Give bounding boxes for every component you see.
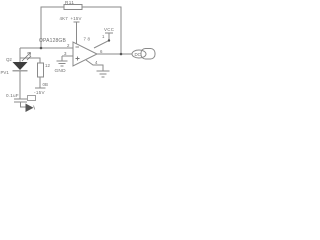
svg-text:VCC: VCC — [104, 27, 114, 32]
svg-text:-15V: -15V — [34, 90, 46, 95]
svg-text:Q2: Q2 — [6, 57, 12, 62]
svg-text:DC: DC — [135, 52, 141, 57]
svg-text:OPA128GB: OPA128GB — [39, 38, 66, 44]
svg-text:PV1: PV1 — [1, 70, 10, 75]
svg-text:0.1uF: 0.1uF — [6, 93, 19, 98]
svg-text:0B: 0B — [43, 82, 48, 87]
svg-text:R11: R11 — [65, 0, 74, 5]
svg-text:+15V: +15V — [71, 16, 82, 21]
svg-text:12: 12 — [45, 63, 50, 68]
svg-text:4K7: 4K7 — [60, 16, 69, 21]
svg-text:GND: GND — [55, 68, 67, 74]
